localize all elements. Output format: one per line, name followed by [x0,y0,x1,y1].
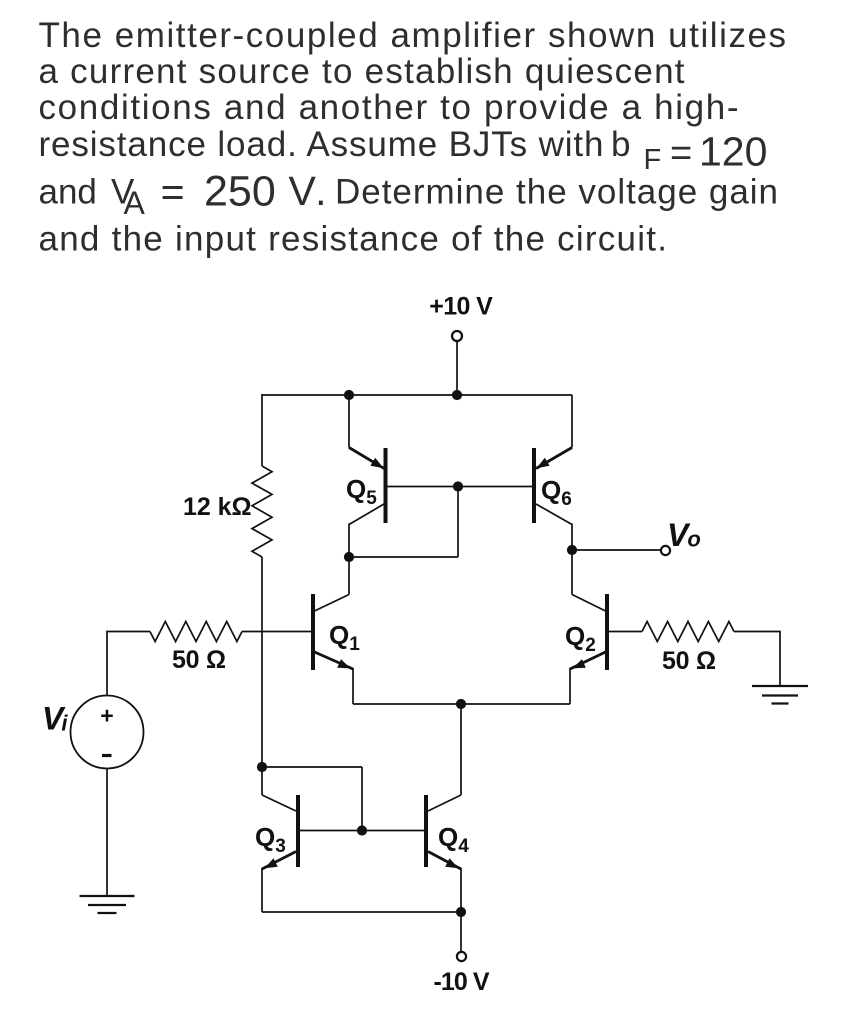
Q5 emitter arrow [370,458,383,469]
-10 V terminal [457,952,466,961]
wire Q6 collector [536,504,572,525]
wire Vo lead [572,549,661,551]
wire emitter rail [353,703,570,705]
svg-text:F: F [644,144,662,176]
wire +10V drop [456,342,458,396]
resistor 12 kOhm [252,466,272,557]
transistor Q2 [605,594,609,670]
svg-text:and the input resistance of th: and the input resistance of the circuit. [39,220,668,259]
svg-text:Q2: Q2 [565,621,596,656]
wire 12k bottom lead [261,557,263,795]
wire Q4 collector [428,795,461,811]
svg-text:12 kΩ: 12 kΩ [183,493,252,521]
svg-text:Vo: Vo [667,517,701,553]
transistor Q6 [532,448,536,523]
svg-text:Determine the voltage gain: Determine the voltage gain [335,173,778,212]
svg-text:+10 V: +10 V [429,293,493,321]
svg-text:50 Ω: 50 Ω [172,646,226,674]
wire Q1 collector [348,557,350,595]
wire Q2 collector [571,550,573,595]
wire tail drop [460,704,462,795]
node top-left junction [344,390,354,400]
transistor Q5 [384,448,388,523]
svg-text:The emitter-coupled amplifier: The emitter-coupled amplifier shown util… [39,16,787,55]
resistor 50 Ohm right [642,622,734,642]
svg-text:-10 V: -10 V [434,968,490,996]
Vo terminal [661,546,670,555]
wire 12k top lead [261,394,263,466]
source Vi [71,696,144,769]
svg-text:250: 250 [204,167,276,215]
svg-text:Q3: Q3 [255,822,286,857]
svg-text:V.: V. [289,168,330,214]
svg-text:conditions and another to prov: conditions and another to provide a high… [39,88,739,127]
ground left [80,896,135,913]
wire Q3-Q4 base rail [298,830,426,832]
wire 50R to ground [734,632,780,686]
wire Q2 emitter [570,652,606,669]
svg-text:Q5: Q5 [346,474,377,509]
node Vo junction [567,545,577,555]
wire Q6 emitter [571,395,573,448]
wire Q3 collector [262,795,296,811]
wire Q1 base lead [242,631,311,633]
Vi minus sign [102,754,112,757]
Q4 emitter arrow [445,858,458,868]
Q2 emitter arrow [573,659,586,668]
svg-text:b: b [611,125,630,164]
svg-text:120: 120 [699,128,767,174]
wire base-to-collector tie [349,487,458,558]
Q6 emitter arrow [537,458,550,469]
wire Q3 emitter [262,852,296,870]
svg-text:Q4: Q4 [438,822,469,857]
node 12k/Q3 junction [257,762,267,772]
wire Q5 collector [349,504,384,525]
svg-text:a current source to establish: a current source to establish quiescent [39,52,685,91]
transistor Q4 [424,795,428,867]
svg-text:=: = [670,132,692,174]
node top supply junction [452,390,462,400]
svg-text:50 Ω: 50 Ω [662,647,716,675]
+10 V terminal [452,331,462,341]
node emitter rail junction [456,699,466,709]
wire mirror tie horizontal [262,766,362,768]
node bottom rail junction [456,907,466,917]
Q1 emitter arrow [337,659,350,668]
svg-text:Vi: Vi [42,701,68,737]
wire Q4 emitter [428,852,461,870]
svg-text:and: and [39,173,97,212]
wire Q5 emitter [348,395,350,448]
transistor Q3 [296,795,300,867]
svg-text:Q6: Q6 [541,475,572,510]
wire mirror tie vertical [361,767,363,831]
ground right [752,686,808,704]
wire Vi top lead [107,632,150,696]
resistor 50 Ohm left [150,622,242,642]
node base rail junction [453,481,463,491]
wire Vi bottom lead [106,769,108,897]
node Q5 collector junction [344,552,354,562]
wire top rail [262,394,572,396]
wire Q1 emitter [315,652,354,669]
transistor Q1 [311,594,315,670]
svg-text:=: = [161,169,185,215]
wire -10V drop [460,912,462,952]
svg-text:Q1: Q1 [329,620,360,655]
svg-text:A: A [124,185,146,221]
node Q3-Q4 base junction [357,825,367,835]
wire Q5-Q6 base rail [386,486,535,488]
Q3 emitter arrow [265,858,278,868]
wire bottom rail [262,911,461,913]
svg-text:+: + [100,703,113,729]
svg-text:resistance load. Assume BJTs w: resistance load. Assume BJTs with [39,125,604,164]
wire Q2 base lead [609,631,642,633]
